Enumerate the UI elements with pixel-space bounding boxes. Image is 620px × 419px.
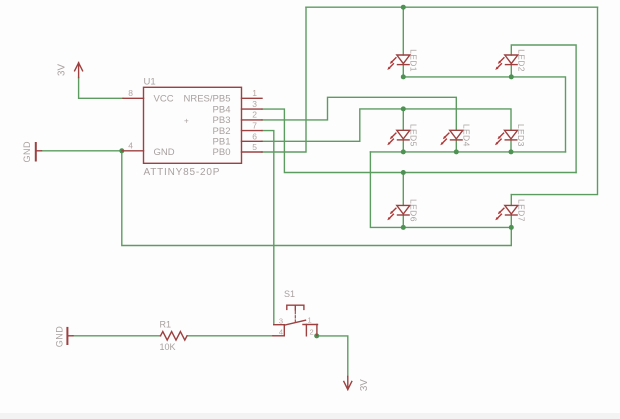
wire LED7 top stub [510,195,512,206]
svg-text:S1: S1 [284,289,295,299]
junction LED6 bottom [401,225,406,230]
svg-text:PB3: PB3 [213,115,231,126]
U1 pin 5 PB0 stub [242,151,263,153]
wire PB1 pin6 to LED3 top [262,109,511,141]
wire PB3 pin2 to LED4 top [262,97,456,130]
switch S1 plunger dashed [294,305,296,310]
junction LED7 bottom [509,225,514,230]
svg-text:GND: GND [54,326,64,348]
wire middle row cathode [370,151,565,153]
ground bar bottom [66,328,68,344]
U1 pin 1 NRES/PB5 stub [242,97,263,99]
switch S1 pin 2 lead [305,325,307,336]
switch S1 lever [284,320,305,325]
wire right outer drop to LED7 top [511,7,597,194]
svg-text:PB0: PB0 [213,147,231,158]
svg-text:+: + [184,117,189,126]
wire LED1 top [402,7,404,55]
wire LED1 bottom [402,65,404,77]
svg-text:3V: 3V [359,379,370,391]
svg-text:10K: 10K [160,342,176,352]
svg-text:3: 3 [252,99,257,109]
svg-text:1: 1 [308,316,312,325]
wire LED3 bottom [510,140,512,152]
U1 pin 2 PB3 stub [242,119,263,121]
wire LED6 bottom [402,215,404,227]
ground pin bottom [67,335,73,337]
LED3 [495,130,518,145]
svg-text:3V: 3V [57,64,68,76]
svg-text:LED5: LED5 [408,124,418,147]
LED4 [440,130,463,145]
wire PB4 pin3 down to LED6-top line [262,109,576,172]
svg-text:U1: U1 [144,77,156,88]
wire LED5 bottom [402,140,404,152]
wire LED7 bottom [510,215,512,227]
U1 pin 8 VCC stub [123,97,144,99]
junction LED5 bottom [401,149,406,154]
U1 pin 3 PB4 stub [242,108,263,110]
svg-text:GND: GND [22,141,32,163]
svg-text:6: 6 [252,131,257,141]
junction LED3 bottom [509,149,514,154]
svg-text:LED3: LED3 [516,124,526,147]
junction switch output [314,333,319,338]
U1 pin 7 PB2 stub [242,130,263,132]
svg-text:LED2: LED2 [516,49,526,72]
wire middle row left drop to LED6/7 row [370,152,511,228]
svg-text:4: 4 [279,328,283,337]
ground pin left [36,150,42,152]
svg-text:NRES/PB5: NRES/PB5 [184,94,231,105]
svg-text:7: 7 [252,121,257,131]
wire PB2 pin7 down to switch [262,131,274,325]
svg-text:VCC: VCC [154,94,174,105]
wire LED5 top [402,109,404,130]
wire R1 to switch pin4 [188,335,273,337]
resistor R1 zigzag [161,332,187,341]
op-amp U1 ATTINY85 body [144,87,242,163]
svg-text:LED6: LED6 [408,199,418,222]
wire LED6 top [402,173,404,206]
LED2 [495,55,518,70]
svg-text:PB2: PB2 [213,126,231,137]
switch S1 left contact bar [283,325,285,336]
svg-text:LED1: LED1 [408,49,418,72]
wire LED2 top loop to y172 line [511,45,576,173]
LED5 [387,130,410,145]
wire GND symbol to pin4 [42,150,122,152]
wire LED2 bottom [510,65,512,77]
junction top bus LED1 [401,5,406,10]
svg-text:3: 3 [279,317,283,326]
svg-text:4: 4 [128,140,133,150]
svg-text:5: 5 [252,142,257,152]
switch S1 right contact bar [303,324,318,326]
svg-text:PB1: PB1 [213,137,231,148]
svg-text:GND: GND [154,147,175,158]
switch S1 top actuator bracket [287,305,304,309]
junction LED1 bottom [401,74,406,79]
svg-text:1: 1 [252,88,257,98]
junction LED5 top [401,106,406,111]
junction LED2 bottom [509,74,514,79]
svg-text:2: 2 [310,327,314,336]
supply 3V arrow bottom [344,377,352,390]
supply 3V arrow top [75,63,83,78]
wire PB0 pin5 to top bus riser [262,7,306,152]
svg-text:R1: R1 [160,320,172,330]
wire 3V to VCC pin8 [79,78,123,99]
wire top bus [306,6,598,8]
svg-text:LED7: LED7 [516,199,526,222]
bottom page band [0,413,620,419]
LED6 [387,205,410,220]
U1 pin 4 GND stub [122,150,144,152]
wire switch pin2 to 3V drop [317,336,348,377]
switch S1 pin 4 stub [273,335,284,337]
U1 pin 6 PB1 stub [242,140,263,142]
LED7 [495,205,518,220]
LED1 [387,55,410,70]
svg-text:PB4: PB4 [213,104,231,115]
junction LED6 top [401,170,406,175]
svg-text:2: 2 [252,110,257,120]
wire cathode link LED1-LED2 right drop [403,77,565,152]
wire GND junction down, bottom cathode bus, up to LED7 bottom [122,151,512,246]
junction GND pin4 [119,148,124,153]
switch S1 pin 3 stub [274,324,285,326]
svg-text:LED4: LED4 [461,124,471,147]
svg-text:8: 8 [128,88,133,98]
wire LED4 bottom [455,140,457,152]
switch S1 pin 1 lead [316,325,318,336]
wire GND2 to R1 [73,335,161,337]
ground bar left [35,143,37,161]
svg-text:ATTINY85-20P: ATTINY85-20P [144,167,221,178]
junction LED4 bottom [454,149,459,154]
